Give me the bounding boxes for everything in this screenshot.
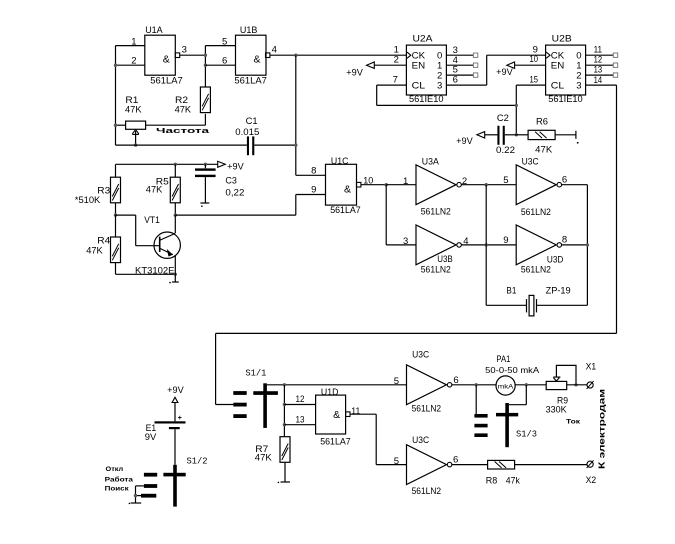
svg-text:U2B: U2B	[552, 33, 572, 44]
svg-text:4: 4	[463, 236, 468, 247]
node C3 top junction	[204, 163, 207, 166]
counter U2B 561IE10	[546, 45, 586, 95]
wire U3A out row	[462, 184, 517, 186]
wire riser x=205.4 pin5/pin6/R2	[204, 46, 206, 87]
svg-text:C1: C1	[246, 116, 258, 127]
svg-text:3: 3	[437, 80, 442, 91]
wire riser to U3B in	[385, 185, 387, 245]
node meter left junction	[475, 383, 478, 386]
terminal X2	[587, 461, 593, 467]
wire U2A CL drop	[376, 85, 378, 105]
svg-text:2: 2	[394, 54, 399, 65]
svg-text:S1/2: S1/2	[187, 457, 208, 467]
node pin13 junction	[283, 423, 286, 426]
wire rail to R3 top	[115, 164, 117, 177]
R1 wiper shaft	[135, 131, 137, 145]
wire U2B CL stub	[516, 84, 545, 86]
svg-text:+9V: +9V	[496, 67, 513, 77]
svg-text:6: 6	[453, 454, 458, 465]
svg-text:Работа: Работа	[105, 477, 134, 484]
wire R6 right	[555, 134, 576, 136]
inverter U3C 561LN2 (top)	[516, 165, 556, 205]
switch S1/3 moving contact	[505, 403, 509, 447]
wire U3B out row	[462, 244, 517, 246]
svg-text:561LN2: 561LN2	[412, 486, 442, 497]
wire U3C out	[562, 184, 588, 186]
svg-text:CL: CL	[412, 80, 426, 91]
wire junction to R6	[516, 134, 528, 136]
svg-text:U1A: U1A	[145, 25, 163, 36]
inverter U3C 561LN2 (meter driver)	[407, 365, 447, 405]
op U1B 561LA7 NAND gate	[236, 35, 267, 75]
svg-text:561LA7: 561LA7	[234, 76, 267, 87]
wire U1B pin5	[205, 45, 235, 47]
wire U2A out3 pin6	[446, 84, 486, 86]
switch S1/1 moving contact	[263, 383, 267, 428]
svg-text:+9V: +9V	[456, 136, 473, 146]
op U1C 561LA7 NAND gate	[326, 164, 357, 205]
node R1 left junction	[114, 124, 117, 127]
wire U1B pin6	[205, 64, 235, 66]
power +9V arrow (left rail)	[218, 161, 226, 167]
wire C1 right	[254, 144, 295, 146]
svg-text:KT3102E: KT3102E	[135, 265, 175, 276]
node U3B out junction	[485, 243, 488, 246]
svg-text:47K: 47K	[86, 246, 103, 257]
R1 left lead	[116, 124, 126, 126]
wire R5 top lead	[174, 164, 176, 177]
svg-text:6: 6	[562, 175, 567, 186]
wire base node row	[116, 214, 136, 216]
wire left vertical bus x=115.5	[115, 46, 117, 146]
svg-text:S1/1: S1/1	[245, 368, 266, 378]
power +9V arrow battery	[172, 397, 178, 402]
wire long horizontal y=333.4	[216, 332, 617, 334]
op U1A 561LA7 NAND gate	[145, 35, 176, 75]
R1 wiper arrow	[132, 130, 139, 135]
wire U1D out drop	[375, 414, 377, 464]
terminal square U2A pin3	[473, 53, 477, 57]
wire R1 right lead to R2	[146, 124, 206, 126]
wire U3B in	[386, 244, 416, 246]
wire S1/2 link vertical	[135, 486, 137, 503]
wire R4 top lead	[115, 215, 117, 237]
svg-text:Ток: Ток	[566, 419, 581, 426]
wire right vertical x=587.4 to B1	[586, 185, 588, 306]
wire U1D pin12	[284, 404, 315, 406]
svg-text:561LN2: 561LN2	[521, 207, 551, 218]
node emitter junction	[174, 273, 177, 276]
R9 wiper loop	[556, 365, 576, 384]
svg-text:14: 14	[594, 75, 603, 86]
wire R3 bottom lead	[115, 203, 117, 215]
wire R5 bottom lead	[174, 203, 176, 215]
switch S1/2 moving contact	[173, 465, 177, 507]
svg-text:47K: 47K	[125, 104, 142, 115]
battery E1 9V	[155, 421, 186, 423]
svg-text:B1: B1	[506, 285, 516, 296]
power +9V arrow C2	[477, 132, 485, 138]
capacitor C1 0.015	[247, 136, 249, 155]
svg-text:R6: R6	[536, 117, 548, 128]
svg-text:+: +	[178, 415, 182, 422]
wire U1B out long to U2A CK	[270, 54, 407, 56]
wire U2B CL drop x=516.3	[515, 85, 517, 135]
wire R7 bottom	[284, 462, 286, 482]
capacitor C2 0.22	[497, 126, 499, 145]
svg-text:3: 3	[576, 80, 581, 91]
wire CL row y=105.4	[377, 104, 517, 106]
capacitor C3 0,22	[195, 168, 216, 170]
wire U1C out to U3A in	[386, 184, 416, 186]
svg-text:50-0-50 mkA: 50-0-50 mkA	[485, 365, 540, 375]
svg-text:12: 12	[296, 394, 305, 405]
wire U1D out	[350, 413, 376, 415]
inverter U3D 561LN2	[516, 225, 556, 265]
resistor R6 47K	[528, 130, 555, 139]
wire riser x=284.4 pins 12/13/R7	[283, 385, 285, 437]
wire U3D out	[562, 244, 588, 246]
ground S1/2 bar	[131, 502, 142, 504]
svg-text:S1/3: S1/3	[516, 429, 537, 439]
svg-text:47K: 47K	[146, 184, 163, 195]
wire meter to R9	[515, 384, 546, 386]
svg-text:5: 5	[394, 376, 399, 387]
svg-text:0.22: 0.22	[496, 145, 515, 156]
node U3A out junction	[485, 183, 488, 186]
svg-text:5: 5	[394, 456, 399, 467]
resistor R5 47K	[170, 177, 180, 203]
switch S1/3 fixed contacts	[474, 414, 487, 418]
wire U2B EN	[515, 64, 546, 66]
node C1 right junction	[294, 143, 297, 146]
svg-text:6: 6	[453, 75, 458, 86]
wire to U2B CK	[487, 54, 546, 56]
svg-text:11: 11	[351, 406, 360, 417]
wire meter-left to S1/3 top contact	[475, 385, 477, 414]
counter U2A 561IE10	[406, 45, 446, 95]
resistor R9 330K rheostat	[546, 381, 567, 389]
wire C1 left	[116, 144, 247, 146]
wire R9 to X1	[567, 384, 587, 386]
wire R8 to X2	[515, 464, 587, 466]
svg-text:+9V: +9V	[346, 67, 363, 77]
svg-text:R8: R8	[486, 476, 498, 487]
wire U2B out0	[586, 54, 614, 56]
svg-text:10: 10	[530, 54, 539, 65]
svg-text:47k: 47k	[506, 475, 520, 486]
node pin6 junction	[204, 63, 207, 66]
svg-text:0.015: 0.015	[235, 127, 259, 138]
node R3/R4/base junction	[114, 213, 117, 216]
wire C2 to junction	[505, 134, 517, 136]
svg-text:&: &	[163, 54, 170, 66]
svg-text:К электродам: К электродам	[597, 389, 606, 469]
node R5/collector junction	[174, 213, 177, 216]
terminal X1	[587, 382, 593, 388]
node U1C out junction	[385, 183, 388, 186]
wire battery to S1/2	[174, 429, 176, 465]
svg-text:330K: 330K	[546, 405, 568, 416]
wire to S1/1 middle contact	[216, 404, 234, 406]
svg-text:9: 9	[503, 235, 508, 246]
svg-text:561LN2: 561LN2	[521, 265, 551, 276]
wire right vertical x=616.5	[616, 85, 618, 333]
wire U1A pin1	[116, 45, 145, 47]
node R5 top junction	[174, 163, 177, 166]
svg-text:5: 5	[503, 175, 508, 186]
svg-text:EN: EN	[551, 61, 565, 72]
svg-text:1: 1	[403, 176, 408, 187]
terminal tick R6 right	[575, 131, 577, 139]
wire meter-right drop	[525, 385, 527, 405]
svg-text:CL: CL	[551, 80, 565, 91]
svg-text:3: 3	[403, 236, 408, 247]
terminal square U2A pin5	[473, 73, 477, 77]
svg-text:U3C: U3C	[412, 350, 429, 361]
svg-text:561IE10: 561IE10	[548, 94, 583, 105]
svg-text:561LA7: 561LA7	[330, 205, 361, 216]
svg-text:+9V: +9V	[167, 385, 184, 395]
wire to base	[136, 245, 160, 247]
wire emitter lead	[174, 255, 176, 282]
svg-text:9V: 9V	[145, 432, 157, 443]
wire riser pin6 to U2B CK	[486, 55, 488, 85]
svg-text:+9V: +9V	[227, 161, 244, 171]
wire U3C out to meter	[452, 384, 496, 386]
svg-text:47K: 47K	[255, 452, 273, 463]
svg-text:U1C: U1C	[331, 156, 349, 167]
terminal square U2B pin12	[613, 63, 617, 67]
power +9V arrow U2B EN	[507, 62, 515, 68]
wire R2 bottom lead	[204, 114, 206, 125]
resistor R7 47K	[280, 437, 290, 463]
svg-text:561LN2: 561LN2	[421, 264, 451, 275]
svg-text:9: 9	[311, 185, 316, 196]
piezo B1 ZP-19	[526, 299, 528, 312]
wire link to S1/3 cross	[509, 404, 526, 406]
wire U2A out0	[446, 54, 473, 56]
ground R7 bar	[281, 481, 291, 483]
svg-text:ZP-19: ZP-19	[546, 285, 571, 296]
wire U1A out to riser	[180, 54, 206, 56]
svg-text:7: 7	[393, 74, 398, 85]
meter PA1 50-0-50 mkA	[496, 376, 515, 395]
node pin3 junction	[204, 54, 207, 57]
ground emitter bar	[172, 281, 179, 283]
wire C3 top lead	[204, 164, 206, 168]
wire R4 bottom lead	[115, 263, 117, 275]
svg-text:X1: X1	[586, 362, 597, 373]
svg-text:*510K: *510K	[75, 195, 101, 206]
resistor R1 47K potentiometer	[126, 121, 146, 129]
wire U2A out2	[446, 74, 473, 76]
wire U2A CL stub	[377, 84, 407, 86]
wire paralleling vertical x=486.2 to B1	[485, 185, 487, 306]
inverter U3A 561LN2	[416, 165, 456, 205]
node meter right junction	[525, 383, 528, 386]
terminal square U2B pin13	[613, 73, 617, 77]
svg-text:Поиск: Поиск	[105, 487, 129, 493]
wire U2B out3 pin14	[586, 84, 617, 86]
svg-text:VT1: VT1	[144, 215, 160, 226]
op U1D 561LA7 NAND gate	[316, 395, 346, 434]
svg-text:4: 4	[272, 45, 277, 56]
wire B1 left	[486, 304, 526, 306]
wire S1/2 bottom contact link	[136, 495, 142, 497]
node R9 wiper junction	[574, 383, 577, 386]
wire pin9 riser	[295, 195, 297, 216]
svg-text:U3C: U3C	[522, 156, 539, 167]
wire R4 to emitter row	[116, 273, 176, 275]
wire U2B out2	[586, 74, 614, 76]
wire battery top	[174, 403, 176, 422]
svg-text:U1B: U1B	[240, 25, 258, 36]
svg-text:3: 3	[182, 45, 187, 56]
wire U1D pin13	[284, 424, 315, 426]
resistor R3 *510K	[111, 177, 121, 203]
R9 wiper arrow	[553, 377, 560, 381]
wire C3 bottom lead	[204, 177, 206, 203]
node pin12 junction	[283, 403, 286, 406]
node U1A pin2 junction	[114, 63, 117, 66]
inverter U3B 561LN2	[416, 225, 456, 265]
svg-text:561LN2: 561LN2	[412, 404, 442, 415]
node CL row junction	[515, 104, 518, 107]
node C2/R6 junction	[515, 133, 518, 136]
wire to lower U3C input	[376, 464, 406, 466]
wire S1/2 middle contact link	[136, 485, 144, 487]
wire +9V rail y=164.3	[116, 163, 218, 165]
svg-text:15: 15	[530, 75, 539, 86]
resistor R4 47K	[111, 237, 121, 263]
wire base drop	[135, 215, 137, 246]
svg-text:U2A: U2A	[413, 33, 434, 44]
svg-text:Откл: Откл	[106, 467, 124, 473]
wire U1C out	[361, 184, 386, 186]
wire S1/1 to node row	[267, 384, 407, 386]
wire U1C pin9 stub	[296, 194, 326, 196]
ground C3 bar	[200, 202, 209, 204]
wire collector lead	[174, 215, 176, 233]
svg-text:mkA: mkA	[498, 384, 515, 391]
node S1/2 link junction	[134, 494, 137, 497]
svg-text:U1D: U1D	[321, 387, 339, 398]
wire vertical x=295.8 down to U1C pin8	[295, 55, 297, 175]
svg-text:U3C: U3C	[412, 435, 429, 446]
svg-text:8: 8	[311, 166, 316, 177]
power +9V arrow U2A EN	[367, 62, 375, 68]
wire B1 right	[537, 304, 588, 306]
svg-text:561LA7: 561LA7	[150, 76, 183, 87]
svg-text:U3A: U3A	[422, 156, 440, 167]
svg-text:C2: C2	[497, 113, 509, 124]
switch S1/1 fixed contacts	[233, 391, 246, 395]
resistor R2 47K	[200, 87, 210, 113]
terminal square U2B pin11	[613, 53, 617, 57]
wire U2A out1	[446, 64, 473, 66]
svg-text:47K: 47K	[175, 104, 192, 115]
switch S1/2 fixed contacts	[144, 473, 157, 477]
wire lower U3C out	[452, 464, 488, 466]
svg-text:13: 13	[296, 414, 305, 425]
inverter U3C 561LN2 (electrode driver)	[407, 445, 447, 485]
terminal square U2A pin4	[473, 63, 477, 67]
wire U1A pin2	[116, 64, 145, 66]
svg-text:&: &	[254, 54, 261, 66]
wire arrow to C2	[485, 134, 498, 136]
svg-text:8: 8	[562, 235, 567, 246]
svg-text:EN: EN	[412, 61, 426, 72]
svg-text:0,22: 0,22	[225, 188, 244, 199]
svg-text:X2: X2	[586, 475, 597, 486]
node U3D out junction	[586, 243, 589, 246]
svg-text:561IE10: 561IE10	[409, 94, 444, 105]
svg-text:2: 2	[462, 176, 467, 187]
svg-text:&: &	[333, 409, 340, 421]
svg-text:47K: 47K	[535, 144, 553, 155]
resistor R8 47k	[488, 460, 515, 469]
wire collector node row to U1C pin9	[175, 214, 295, 216]
wire U2B out1	[586, 64, 614, 66]
svg-text:C3: C3	[225, 175, 237, 186]
svg-text:PA1: PA1	[496, 354, 510, 365]
node R1 wiper junction	[134, 143, 137, 146]
wire U1C pin8 stub	[296, 174, 326, 176]
svg-text:Частота: Частота	[156, 128, 209, 135]
node U1B out junction	[294, 54, 297, 57]
svg-text:&: &	[344, 183, 351, 195]
transistor VT1 KT3102E	[154, 232, 180, 258]
svg-text:561LN2: 561LN2	[421, 207, 451, 218]
svg-text:561LA7: 561LA7	[320, 437, 351, 448]
wire left vertical x=215.6	[215, 333, 217, 404]
node S1/1 junction x=284.4	[283, 383, 286, 386]
wire U2A EN	[374, 64, 406, 66]
